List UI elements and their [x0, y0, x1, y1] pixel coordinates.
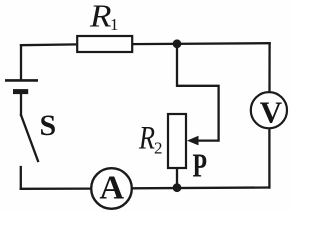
- battery negative plate (short thick): [13, 89, 28, 94]
- wire top-left segment: [21, 43, 77, 46]
- wire bottom-left segment: [21, 187, 91, 189]
- rheostat R2 body: [168, 114, 186, 168]
- rheostat R2 wiper arrowhead: [187, 136, 199, 146]
- wire switch lower stub: [20, 167, 22, 189]
- wire wiper: junction down, right, down to arrow: [177, 44, 219, 141]
- wire R2 bottom lead: [176, 168, 178, 188]
- wire battery to switch: [20, 94, 22, 116]
- svg-text:1: 1: [110, 15, 119, 34]
- node junction bottom: [173, 183, 182, 192]
- wire bottom-right segment: [133, 186, 270, 189]
- resistor R1 body: [77, 36, 132, 52]
- wire right vertical lower (voltmeter bottom lead): [268, 129, 270, 188]
- wire top-right segment: [132, 42, 270, 45]
- svg-text:R: R: [138, 121, 155, 157]
- switch S blade: [21, 115, 38, 161]
- ammeter A body: [91, 168, 132, 209]
- svg-text:R: R: [89, 0, 112, 34]
- battery positive plate (long): [5, 79, 38, 82]
- svg-text:2: 2: [154, 139, 163, 158]
- svg-text:A: A: [100, 170, 125, 207]
- wire right vertical upper (voltmeter top lead): [268, 43, 270, 92]
- node junction top: [173, 39, 182, 48]
- svg-text:P: P: [193, 147, 208, 184]
- svg-text:S: S: [40, 109, 57, 142]
- voltmeter V body: [251, 92, 287, 128]
- svg-text:V: V: [260, 94, 283, 129]
- wire left vertical (battery top lead): [20, 45, 22, 79]
